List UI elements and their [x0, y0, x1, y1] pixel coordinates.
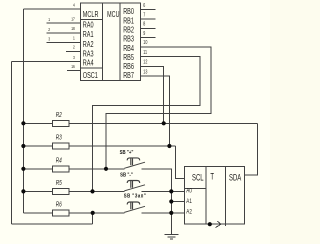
svg-text:RA2: RA2	[83, 41, 94, 49]
svg-text:MCLR: MCLR	[83, 11, 99, 19]
svg-text:A2: A2	[186, 209, 192, 216]
svg-text:T: T	[210, 171, 214, 182]
svg-text:R6: R6	[56, 202, 63, 209]
svg-text:RA3: RA3	[83, 50, 94, 58]
svg-text:SCL: SCL	[192, 172, 204, 183]
svg-text:RB3: RB3	[123, 36, 134, 44]
svg-text:RA4: RA4	[83, 60, 94, 68]
svg-text:RA1: RA1	[83, 31, 94, 39]
svg-text:10: 10	[143, 39, 147, 45]
svg-text:13: 13	[143, 69, 147, 75]
svg-text:17: 17	[71, 16, 75, 22]
svg-text:R3: R3	[56, 135, 63, 142]
svg-text:OSC1: OSC1	[83, 72, 98, 80]
svg-text:7: 7	[143, 12, 145, 18]
svg-text:RB0: RB0	[123, 8, 134, 16]
svg-text:SDA: SDA	[229, 172, 241, 183]
svg-text:R2: R2	[56, 112, 63, 119]
svg-text:R5: R5	[56, 180, 63, 187]
svg-text:6: 6	[143, 2, 145, 8]
svg-text:RB4: RB4	[123, 45, 134, 53]
svg-text:MCU: MCU	[107, 11, 119, 19]
svg-text:12: 12	[143, 59, 147, 65]
svg-text:RB7: RB7	[123, 72, 134, 80]
svg-text:RB1: RB1	[123, 17, 134, 25]
svg-text:A0: A0	[186, 188, 192, 195]
svg-text:SB "+": SB "+"	[120, 150, 134, 157]
svg-text:SB "-": SB "-"	[120, 172, 133, 179]
svg-text:A1: A1	[186, 198, 192, 205]
svg-text:SB "Зап": SB "Зап"	[124, 193, 146, 200]
svg-text:11: 11	[143, 49, 147, 55]
svg-text:R4: R4	[56, 158, 63, 165]
svg-text:RB5: RB5	[123, 54, 134, 62]
svg-text:16: 16	[71, 63, 75, 69]
svg-text:RB6: RB6	[123, 63, 134, 71]
svg-text:18: 18	[71, 26, 75, 32]
svg-text:8: 8	[143, 21, 145, 27]
svg-text:9: 9	[143, 30, 145, 36]
svg-text:RB2: RB2	[123, 27, 134, 35]
svg-text:RA0: RA0	[83, 22, 94, 30]
